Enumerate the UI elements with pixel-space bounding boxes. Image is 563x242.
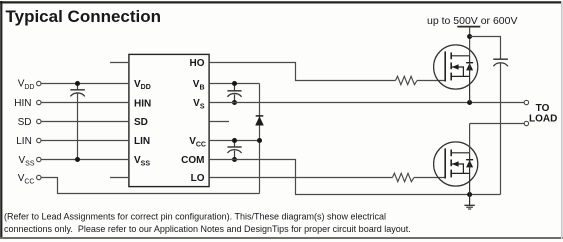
pin label HIN (inside) [134,98,151,109]
wire LIN input to pin [41,140,129,142]
svg-text:LOAD: LOAD [529,113,557,124]
wire Q2 drain riser [469,124,471,153]
input label VCC [18,173,35,185]
label up to 500V or 600V [427,15,518,27]
svg-text:HIN: HIN [14,98,31,109]
svg-text:LIN: LIN [134,136,150,147]
wire VDD input to pin [41,83,129,85]
junction VB-C2 [232,81,237,86]
svg-text:LIN: LIN [16,136,32,147]
border frame left [0,1,2,239]
wire switch node to LOAD terminal [470,123,525,125]
terminal circle SD [37,119,41,123]
wire R1 to Q1 gate [417,80,445,82]
input label SD [18,117,32,128]
wire VS node to TO terminal [209,102,524,104]
border frame right [561,1,563,239]
junction VS-C2 [232,100,237,105]
svg-text:VB: VB [193,79,205,91]
wire VSS input to pin [41,159,129,161]
pin label LO (inside) [191,173,205,184]
label LOAD [529,113,557,124]
terminal circle VSS [37,157,41,161]
wire stub unused pin right [209,121,229,123]
pin label SD (inside) [134,117,148,128]
ground symbol [464,195,474,210]
HV rail bar [457,26,480,28]
wire HIN input to pin [41,102,129,104]
svg-text:HIN: HIN [134,98,151,109]
svg-text:COM: COM [181,155,204,166]
junction HV rail cap branch [467,34,472,39]
svg-text:connections only. Please refe: connections only. Please refer to our Ap… [4,224,411,234]
terminal circle LIN [37,138,41,142]
svg-text:up to 500V or 600V: up to 500V or 600V [427,15,518,27]
junction VDD-C1 [75,81,80,86]
svg-text:(Refer to Lead Assignments for: (Refer to Lead Assignments for correct p… [4,212,386,222]
wire SD input to pin [41,121,129,123]
pin label VCC (inside) [189,136,206,148]
diode D1 bootstrap [255,116,264,126]
footnote line 2 [4,224,411,234]
wire stub top-left pin [110,62,129,64]
svg-text:HO: HO [190,58,205,69]
svg-text:VSS: VSS [134,155,150,167]
junction VS-Q1 source [467,100,472,105]
svg-text:LO: LO [191,173,205,184]
svg-text:SD: SD [18,117,32,128]
input label VDD [18,79,35,91]
pin label VDD (inside) [134,79,151,91]
pin label LIN (inside) [134,136,150,147]
transistor Q1 high-side MOSFET [434,45,478,103]
capacitor C4 bus [493,59,508,194]
wire HO to gate resistor [209,63,396,81]
wire LO to gate resistor [209,177,392,179]
resistor R1 high-side gate [396,76,418,84]
junction VCC-C3 [232,138,237,143]
terminal circle VCC [37,175,41,179]
pin label VSS (inside) [134,155,150,167]
wire R2 to Q2 gate [414,177,445,179]
terminal circle HIN [37,100,41,104]
border frame top [0,1,562,3]
wire stub bottom-left pin [110,177,129,179]
pin label VB (inside) [193,79,205,91]
terminal circle LOAD [524,121,528,125]
terminal circle VDD [37,81,41,85]
input label HIN [14,98,31,109]
wire VCC pin to supply column [209,140,260,142]
junction VSS-C1 [75,157,80,162]
input label VSS [18,155,34,167]
input label LIN [16,136,32,147]
junction COM-C3 [232,157,237,162]
svg-text:VSS: VSS [18,155,34,167]
pin label COM (inside) [181,155,204,166]
transistor Q2 low-side MOSFET [434,142,478,195]
junction ground rail Q2 source [467,192,472,197]
border frame bottom [0,237,563,239]
svg-text:Typical Connection: Typical Connection [6,7,162,26]
wire bootstrap diode column VB to VCC supply [259,84,261,194]
IC U1 gate driver box [129,54,209,186]
label TO [536,103,550,114]
wire VB pin to bootstrap diode column [209,83,260,85]
svg-text:VDD: VDD [134,79,151,91]
svg-text:VDD: VDD [18,79,35,91]
terminal circle TO [524,100,528,104]
svg-text:SD: SD [134,117,148,128]
capacitor C3 VCC-COM [227,141,241,160]
title Typical Connection [6,7,162,26]
wire COM to ground rail [209,160,501,195]
wire VCC input run under IC [41,178,259,194]
footnote line 1 [4,212,386,222]
svg-text:VCC: VCC [18,173,35,185]
pin label VS (inside) [193,98,205,110]
wire HV rail to Q1 drain [469,27,471,56]
pin label HO (inside) [190,58,205,69]
junction VCC-D1-supply [257,138,262,143]
capacitor C1 VDD-VSS [70,84,84,160]
resistor R2 low-side gate [392,173,414,181]
wire HV rail to capacitor C4 [470,37,501,59]
svg-text:VS: VS [193,98,205,110]
svg-text:VCC: VCC [189,136,206,148]
capacitor C2 bootstrap VB-VS [227,84,241,103]
